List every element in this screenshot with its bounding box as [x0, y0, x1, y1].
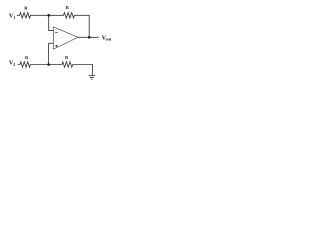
svg-text:out: out [106, 36, 112, 41]
svg-text:1: 1 [13, 15, 15, 20]
svg-text:2: 2 [13, 62, 15, 67]
